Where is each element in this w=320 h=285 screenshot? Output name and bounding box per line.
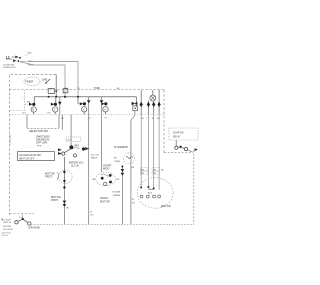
wire console left drop [10,90,25,111]
wire right drop [193,150,195,224]
svg-text:FILL: FILL [75,146,81,150]
svg-text:1M: 1M [116,179,119,181]
motor protector label [45,172,59,181]
dotted junction bus [20,96,136,98]
console dashed enclosure [10,75,165,215]
svg-text:DR OPEN: DR OPEN [3,229,13,231]
drive motor terminal boxes [140,167,164,175]
svg-text:THRM: THRM [114,161,120,163]
wash motor lead to ground [90,212,94,217]
svg-text:CONSOLE: CONSOLE [10,134,12,145]
svg-text:P50: P50 [28,53,33,55]
svg-text:SOAP A/D: SOAP A/D [173,132,184,135]
svg-text:1M5: 1M5 [42,78,48,82]
thermostat box [169,128,198,140]
svg-text:DOOR: DOOR [5,219,12,221]
motor protector [59,157,73,188]
svg-text:INTERLOCK: INTERLOCK [3,67,16,69]
svg-text:GD: GD [90,215,94,217]
svg-text:N: N [2,218,4,221]
svg-text:WASH: WASH [100,196,108,200]
drive motor enclosure [137,178,173,209]
svg-text:Y: Y [146,118,148,120]
svg-text:HEAT ON OFF: HEAT ON OFF [19,158,35,161]
thermostat lead [113,158,125,225]
lower dotted bus [10,113,167,115]
motor terminal 4 [157,90,161,114]
svg-text:DET: DET [67,140,72,142]
wash motor start winding label [103,164,112,171]
water valve coil [69,143,80,150]
svg-text:GY: GY [88,118,92,120]
wire thermostat to console [164,152,192,154]
svg-text:2L1-W: 2L1-W [71,163,79,167]
console bottom edge stub [10,213,35,215]
selector feed drop [58,97,62,115]
svg-text:THERM: THERM [113,195,121,197]
svg-text:BK: BK [132,167,135,169]
console bus dashed [10,89,165,91]
svg-text:PK: PK [48,112,51,114]
svg-text:BK: BK [157,118,160,120]
junction dot [55,96,57,98]
heater element 1W1 [124,120,136,224]
svg-text:SOL 2L1: SOL 2L1 [91,155,100,157]
wire timer feed [55,75,57,97]
svg-text:BU: BU [23,112,26,114]
svg-text:REV A: REV A [2,234,9,237]
svg-text:2M: 2M [153,173,156,175]
wire branch row [34,96,136,98]
svg-text:B THERMO: B THERMO [114,145,128,149]
svg-text:N.O.: N.O. [19,217,24,219]
svg-text:HI-LIMIT: HI-LIMIT [113,192,122,194]
svg-text:BU: BU [61,118,64,120]
svg-text:GROUND: GROUND [28,225,40,229]
motor terminal 2 [147,101,151,115]
svg-text:DOOR SW: DOOR SW [3,64,15,66]
wire L1 feed A [31,62,78,97]
timer motor 1M5 [24,77,40,86]
svg-text:SELECTOR SW: SELECTOR SW [29,129,48,133]
motor terminal 1 [139,90,143,114]
svg-text:POS.: POS. [37,145,42,147]
junction dot [48,96,50,98]
bottom ground bus [31,223,194,225]
motor terminal 3 [152,101,156,115]
junction dot [64,96,66,98]
timer contact block left [48,89,54,94]
wash motor label [100,196,110,204]
thermostat switch [175,140,198,152]
svg-text:WDG: WDG [103,167,109,171]
svg-text:BK: BK [114,158,117,160]
connector plug P50 [12,54,32,62]
svg-text:VT: VT [104,117,107,119]
detergent relay dotted box [66,137,81,142]
selector switch block [27,114,59,133]
text block shown in off [36,135,50,148]
timer contact block right [63,89,68,93]
protector lead [51,186,70,224]
door switch lead [22,214,24,219]
wire label row [23,112,161,120]
svg-text:BK: BK [66,208,69,210]
svg-text:W: W [90,212,93,214]
water valve switch [58,147,100,167]
lamp B2 column [51,97,58,115]
svg-text:3M: 3M [153,169,156,171]
svg-text:PROT: PROT [51,198,59,202]
svg-text:4M: 4M [92,179,95,181]
svg-text:AUX: AUX [148,192,153,195]
svg-text:C: C [54,109,56,112]
wash motor [92,172,119,185]
door switch [2,217,40,231]
wire gauge legend box [18,152,55,161]
svg-text:OFF (UP): OFF (UP) [36,141,47,145]
svg-text:GAUGE/COLOR DRY: GAUGE/COLOR DRY [19,154,42,157]
svg-text:W: W [132,199,134,201]
wire drops mid [62,97,103,225]
solenoid C9 column [101,102,108,114]
thermal fuse column [131,97,138,120]
svg-text:PROT.: PROT. [45,175,53,179]
svg-text:B: B [32,109,34,112]
node L1 [6,55,12,59]
drive motor windings [140,114,160,198]
solenoid C8 column [78,97,87,115]
timer switch blade 1M5 [42,78,50,84]
svg-text:GD: GD [132,203,136,205]
svg-text:MOTOR: MOTOR [100,200,110,204]
svg-text:MOTOR: MOTOR [161,204,171,208]
svg-text:VALVE: VALVE [91,157,98,160]
vent fan motor [150,90,156,101]
svg-text:MAIN: MAIN [148,188,154,191]
svg-text:RELAY: RELAY [173,136,181,139]
svg-text:A: A [104,108,106,111]
timer contact dot [55,90,57,92]
svg-text:C: C [83,108,85,111]
wire L1 feed B [20,62,65,97]
svg-text:TIMER: TIMER [25,80,33,84]
svg-text:BU: BU [27,101,30,103]
svg-text:BK: BK [161,170,164,172]
junction dot [77,96,79,98]
lamp B1 column [29,97,36,115]
svg-text:SWITCH: SWITCH [3,222,12,224]
